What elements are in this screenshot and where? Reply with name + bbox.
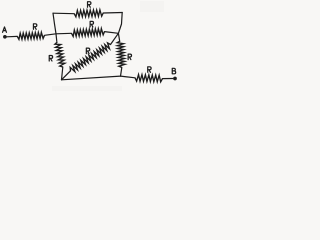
faint scan smudge bottom edge: [52, 86, 122, 91]
resistor R1: [17, 32, 44, 39]
label R3 value R: [90, 21, 93, 27]
wire top-left corner to R2: [53, 12, 74, 15]
resistor R7 (bottom): [135, 75, 163, 82]
wire J1 down to R4: [55, 34, 58, 42]
wire R2 to top-right corner: [103, 12, 122, 15]
wire R7 to node B: [163, 78, 173, 80]
label R1 value R: [33, 24, 36, 30]
resistor R6 (right vertical): [117, 41, 125, 68]
label node A: [3, 27, 7, 32]
wire R4 to node BJ: [62, 67, 63, 80]
wire J2 down to R5 diagonal: [111, 33, 119, 44]
resistor R5 (diagonal): [70, 43, 110, 72]
label R7 value R: [148, 67, 151, 73]
wire A to R1: [7, 35, 18, 37]
resistor R2 (top branch): [74, 10, 103, 17]
resistor R4 (left vertical): [55, 42, 65, 67]
label R2 value R: [88, 2, 91, 8]
node B terminal dot: [173, 77, 177, 81]
label R4 value R: [49, 56, 52, 62]
wire R5 to node BJ: [62, 71, 71, 80]
wire BR to R7: [121, 76, 136, 78]
wire R1 to node J1: [45, 34, 57, 36]
node A terminal dot: [3, 35, 7, 39]
label node B: [172, 68, 175, 74]
wire J2 down to R6: [118, 33, 119, 40]
wire J1 riser up to top branch: [53, 13, 56, 34]
wire J1 to R3: [56, 32, 72, 35]
label R6 value R: [128, 54, 131, 60]
resistor R3 (middle branch): [72, 29, 105, 37]
wire R6 to node BR: [121, 68, 122, 77]
faint scan smudge top right: [140, 1, 164, 12]
wire R3 to node J2: [105, 32, 119, 34]
label R5 value R: [86, 48, 89, 54]
wire BJ to BR bottom run: [62, 76, 121, 80]
wire top-right riser down to J2: [118, 13, 122, 34]
